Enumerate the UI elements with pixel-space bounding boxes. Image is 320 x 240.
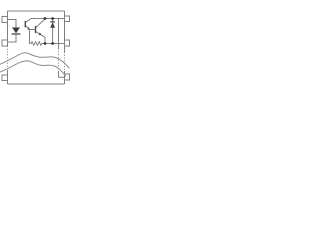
package outline bottom edge [8,83,65,85]
package outline right edge (solid below break) [64,71,66,84]
wire Q1 emitter to resistor [29,30,31,44]
wire collector top bus [31,18,65,20]
package outline right edge (dashed through break) [64,52,66,71]
wire Q1 collector diagonal [26,19,31,23]
LED D1 triangle [12,28,20,34]
diode D2 triangle [50,22,55,27]
package outline left edge (solid below break) [7,70,9,84]
wire emitter bottom bus [45,43,65,45]
break line upper wave [0,53,69,69]
transistor Q2 emitter arrowhead [39,33,42,36]
wire Q1 emitter diagonal [26,26,30,30]
pin 6 (top right) [65,16,70,22]
wire collector to pin 4 (dashed through break) [58,49,60,72]
wire collector to pin 4 (solid above break) [58,19,60,49]
wire Q2 base lead [30,29,36,31]
pin 3 NC (bottom left) [2,75,8,81]
wire Q2 collector diagonal [36,19,45,27]
break line lower wave [0,61,66,77]
wire Q2 emitter down to node [44,37,46,44]
package outline top edge [8,10,65,12]
junction node dot top bus left [44,17,47,20]
pin 4 (bottom right) [65,74,70,80]
junction node dot top bus right [51,17,54,20]
wire collector to pin 4 (solid below break, into pin) [59,71,65,77]
transistor Q1 base bar [24,21,26,27]
junction node dot bottom bus right [51,42,54,45]
wire Q2 emitter diagonal [36,32,45,38]
transistor Q1 emitter arrowhead [27,27,30,30]
wire anode from pin 1 to LED [8,20,17,28]
package outline left edge (solid above break) [7,11,9,46]
pin 5 (middle right) [65,40,70,46]
junction node dot bottom bus left [44,42,47,45]
pin 1 anode (top left) [2,17,8,23]
wire diode cathode from top bus [52,19,54,22]
transistor Q2 base bar [35,26,37,33]
wire diode anode to bottom bus [52,28,54,44]
resistor R (base-emitter) [30,42,46,46]
LED D1 cathode bar [12,33,21,35]
package outline left edge (dashed through break) [7,46,9,70]
diode D2 cathode bar [50,21,55,23]
pin 2 cathode (middle left) [2,40,8,46]
wire cathode from LED to pin 2 [8,34,17,42]
package outline right edge (solid above break) [64,11,66,52]
